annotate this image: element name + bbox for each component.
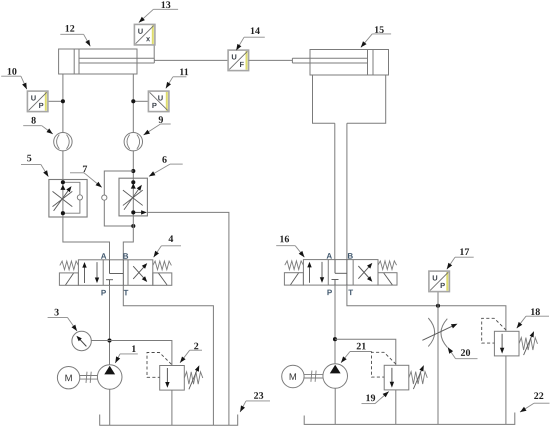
svg-text:14: 14: [250, 26, 260, 37]
svg-text:F: F: [240, 60, 245, 69]
svg-text:5: 5: [27, 153, 32, 164]
pump 21: [323, 364, 348, 389]
wire: pump 1 to tank: [109, 389, 111, 425]
wire: valve 5 to valve 4 port A: [63, 217, 110, 260]
wire: valve 16 P to pump 21: [334, 285, 336, 364]
coupling 1: [80, 372, 98, 383]
svg-text:6: 6: [162, 155, 167, 166]
svg-text:11: 11: [179, 67, 188, 78]
svg-text:23: 23: [254, 391, 264, 402]
label 16: [276, 234, 304, 257]
svg-text:U: U: [138, 27, 143, 36]
wire sensor 11 stub: [133, 100, 148, 102]
flow control valve 6: [119, 178, 147, 216]
label 6: [149, 155, 183, 177]
svg-text:P: P: [152, 101, 157, 110]
throttle valve 20: [422, 318, 457, 347]
label 15: [361, 25, 391, 48]
wire: throttle 20 branch to tank: [437, 306, 439, 425]
svg-text:18: 18: [530, 307, 540, 318]
flow meter 9: [124, 133, 142, 151]
svg-text:A: A: [101, 252, 107, 261]
port labels valve 4: [101, 252, 129, 298]
label 18: [517, 307, 549, 328]
label 10: [1, 67, 27, 90]
wire: relief valve 2 to tank: [171, 390, 173, 425]
wire gauge stub: [91, 340, 109, 342]
directional valve 16: [284, 260, 397, 286]
wire bypass orifice 7: [104, 171, 133, 226]
relief valve 2: [147, 353, 203, 391]
svg-text:B: B: [123, 252, 129, 261]
svg-text:13: 13: [161, 0, 171, 11]
label 23: [240, 391, 270, 412]
pump 1: [97, 365, 122, 390]
svg-text:17: 17: [459, 247, 469, 258]
cylinder 15: [292, 50, 388, 76]
junction node A-10: [61, 99, 65, 103]
svg-text:A: A: [326, 252, 332, 261]
wire: flow meter 9 to valve 6: [132, 150, 134, 178]
svg-text:U: U: [231, 52, 236, 61]
flow control valve 5: [49, 180, 87, 218]
pressure sensor U/P 10: [27, 91, 48, 112]
svg-text:20: 20: [460, 348, 470, 359]
svg-text:T: T: [124, 288, 129, 297]
wire: flow meter 8 to valve 5: [62, 150, 64, 179]
label 7: [70, 164, 102, 187]
wire rod to sensor 14: [154, 59, 228, 61]
electric motor M2: [282, 365, 304, 387]
label 11: [166, 67, 189, 88]
label 17: [447, 247, 474, 269]
label 22: [520, 391, 550, 412]
svg-text:8: 8: [31, 115, 36, 126]
flow meter 8: [54, 133, 72, 151]
wire: valve 6 to valve 4 port B: [123, 216, 133, 260]
svg-text:15: 15: [374, 25, 384, 36]
wire: valve 4 P to pump 1: [109, 285, 111, 364]
wire sensor 17 stub: [437, 292, 439, 306]
svg-text:U: U: [31, 93, 36, 102]
relief valve 18: [482, 318, 538, 356]
wire: relief valve 19 to tank: [395, 390, 397, 425]
coupling 2: [304, 371, 323, 382]
label 3: [48, 307, 77, 331]
junction node B-11: [131, 99, 135, 103]
svg-text:7: 7: [82, 164, 87, 175]
label 19: [362, 392, 389, 405]
wire: relief valve 18 to tank: [505, 356, 507, 425]
electric motor M1: [57, 367, 79, 389]
label 13: [139, 0, 178, 23]
svg-text:3: 3: [54, 307, 59, 318]
svg-text:10: 10: [7, 67, 17, 78]
label 1: [115, 344, 138, 363]
svg-text:1: 1: [131, 344, 136, 355]
wire A right: frame to valve 16: [334, 123, 336, 259]
svg-text:4: 4: [168, 234, 173, 245]
wire sensor 13 link: [153, 45, 155, 58]
cylinder 12: [59, 49, 155, 74]
label 20: [448, 347, 478, 359]
wire B right: frame to valve 16: [346, 123, 348, 259]
pressure gauge 3: [72, 331, 91, 350]
svg-text:P: P: [39, 101, 44, 110]
svg-text:T: T: [348, 288, 353, 297]
wire: pump 21 to tank: [334, 388, 336, 424]
label 4: [154, 234, 181, 257]
position sensor U/x 13: [134, 24, 155, 45]
svg-text:M: M: [289, 372, 297, 383]
svg-text:9: 9: [158, 115, 163, 126]
svg-text:B: B: [347, 252, 353, 261]
svg-text:2: 2: [194, 341, 199, 352]
label 2: [180, 341, 202, 363]
label 12: [60, 24, 90, 47]
junction bypass bottom: [131, 224, 135, 228]
wire B: cylinder 12 to flow meter 9: [132, 74, 134, 133]
pressure sensor U/P 17: [429, 271, 450, 292]
pressure sensor U/P 11: [148, 91, 169, 112]
junction P21 tap: [333, 337, 337, 341]
junction bypass top: [131, 169, 135, 173]
tank line 23: [100, 415, 238, 426]
frame below cylinder 15: [313, 75, 386, 123]
label 8: [23, 115, 53, 134]
relief valve 19: [372, 352, 428, 390]
wire sensor 10 stub: [48, 100, 63, 102]
orifice ball 7: [102, 195, 107, 200]
tank line 22: [304, 413, 515, 425]
label 14: [236, 26, 265, 50]
svg-text:U: U: [432, 273, 437, 282]
wire sensor 14 to cylinder 15 rod: [249, 59, 293, 61]
wire: valve 6 drain to tank: [147, 212, 229, 425]
port labels valve 16: [326, 252, 353, 298]
svg-text:16: 16: [279, 234, 289, 245]
directional valve 4: [59, 260, 171, 286]
label 5: [21, 153, 48, 176]
svg-text:21: 21: [356, 341, 366, 352]
svg-text:P: P: [327, 288, 333, 297]
wire: P tap to relief valve 2: [110, 341, 172, 366]
wire: P tap to relief valve 19: [335, 339, 396, 365]
wire: valve 16 T line: [347, 285, 506, 331]
wire A: cylinder 12 to flow meter 8: [62, 74, 64, 133]
svg-text:19: 19: [365, 393, 375, 404]
svg-text:M: M: [65, 373, 73, 384]
wire: valve 4 T to tank: [123, 285, 213, 425]
label 21: [341, 341, 372, 362]
svg-text:22: 22: [534, 391, 544, 402]
junction P-gauge: [107, 338, 111, 342]
label 9: [144, 115, 171, 135]
svg-text:P: P: [440, 281, 445, 290]
force sensor U/F 14: [228, 50, 249, 71]
junction sensor 17 node: [436, 304, 440, 308]
svg-text:P: P: [101, 288, 107, 297]
svg-text:12: 12: [65, 24, 75, 35]
svg-text:U: U: [158, 93, 163, 102]
